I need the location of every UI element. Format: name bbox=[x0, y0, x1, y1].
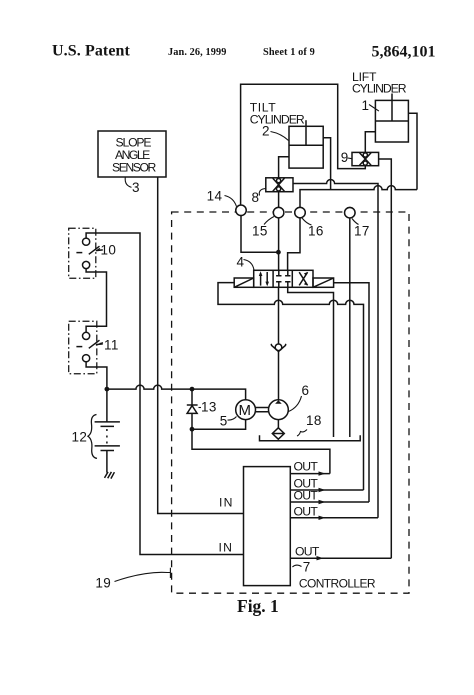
leader for 9 bbox=[348, 157, 352, 160]
valve 8 X symbol bbox=[273, 178, 285, 191]
leader for 6 bbox=[288, 396, 302, 412]
svg-text:6: 6 bbox=[302, 383, 310, 398]
redraw circles over dashed line bbox=[236, 205, 355, 218]
svg-text:OUT: OUT bbox=[294, 504, 319, 518]
wire: right solenoid run to OUT3 riser bbox=[334, 283, 369, 502]
svg-text:CYLINDER: CYLINDER bbox=[352, 81, 407, 95]
switch 11 contacts bbox=[83, 332, 90, 339]
leader for 19 bbox=[115, 568, 171, 582]
valve U4 cell3 crossed arrows bbox=[299, 272, 307, 285]
valve U4 cell2 blocked ports bbox=[276, 270, 290, 276]
tilt cylinder rod bbox=[305, 120, 307, 126]
wire: switch 10 bottom to switch 11 top bbox=[86, 269, 106, 333]
wire: circle 16 down with jog to valve 4 top port bbox=[288, 218, 300, 271]
wire: tilt cylinder left port down to valve 8 bbox=[279, 157, 289, 178]
wire: circle 17 down to tank (crosses solenoid wire, hops plate line) bbox=[349, 218, 351, 437]
leader for 11 bbox=[100, 342, 104, 345]
svg-text:8: 8 bbox=[252, 190, 260, 205]
svg-text:OUT: OUT bbox=[295, 544, 320, 558]
svg-text:14: 14 bbox=[207, 189, 223, 204]
header: patent title block bbox=[52, 43, 436, 61]
leader for 18 bbox=[297, 430, 307, 437]
valve U4 right solenoid bbox=[313, 278, 334, 287]
filter 18 symbol bbox=[272, 428, 284, 439]
svg-text:19: 19 bbox=[95, 576, 111, 591]
leader for 15 bbox=[264, 217, 274, 225]
lift cylinder piston divider bbox=[375, 100, 408, 121]
wire: valve 4 pressure port down to pump bbox=[278, 287, 280, 400]
wire: battery line to motor node with two hops bbox=[107, 385, 192, 389]
valve U4 main body bbox=[254, 270, 313, 287]
diode 13 bbox=[191, 389, 193, 429]
wire: valve 8 bottom port to circle 15 bbox=[278, 192, 280, 208]
leader for 8 bbox=[259, 189, 266, 196]
tank reservoir 18 bbox=[260, 435, 361, 441]
svg-text:U.S. Patent: U.S. Patent bbox=[52, 43, 131, 60]
svg-text:1: 1 bbox=[362, 98, 370, 113]
battery 12 bbox=[106, 389, 108, 422]
tilt cylinder piston divider bbox=[289, 126, 323, 145]
wire: OUT5 bbox=[290, 557, 391, 559]
svg-text:2: 2 bbox=[262, 124, 270, 139]
op circle 15 bbox=[273, 207, 283, 217]
svg-text:10: 10 bbox=[101, 243, 117, 258]
svg-text:15: 15 bbox=[252, 224, 268, 239]
switch 11 enclosure bbox=[69, 321, 97, 374]
wire: big loop from circle 14 up over to valve 9 bottom port bbox=[241, 84, 366, 205]
pump 6 bbox=[269, 400, 289, 420]
svg-text:M: M bbox=[239, 402, 252, 419]
wire: OUT1 bbox=[290, 473, 330, 475]
leader for 16 bbox=[302, 218, 312, 225]
svg-text:7: 7 bbox=[303, 560, 311, 575]
wire: motor node down and right to OUT1 riser bbox=[192, 429, 330, 473]
valve 9 X symbol bbox=[360, 153, 372, 166]
op circle 14 bbox=[236, 205, 246, 215]
switch 11 left tick bbox=[76, 346, 82, 348]
wire: motor bottom return bbox=[192, 420, 246, 430]
svg-text:13: 13 bbox=[201, 400, 217, 415]
leader for 5 bbox=[228, 417, 237, 421]
lift cylinder rod bbox=[391, 94, 393, 101]
svg-text:IN: IN bbox=[219, 541, 232, 555]
leader for 2 bbox=[271, 132, 289, 141]
switch 10 contacts bbox=[83, 238, 90, 245]
svg-text:9: 9 bbox=[341, 150, 349, 165]
slope angle sensor box 3 bbox=[98, 131, 166, 177]
leader for 3 bbox=[125, 177, 131, 187]
switch 10 enclosure bbox=[69, 228, 96, 278]
svg-text:SENSOR: SENSOR bbox=[112, 160, 156, 174]
junction dot above valve 4 bbox=[276, 250, 281, 255]
wire: OUT4 bbox=[290, 517, 378, 519]
switch 10 left tick bbox=[76, 252, 82, 254]
junction dot battery node bbox=[105, 387, 110, 392]
svg-text:IN: IN bbox=[219, 496, 232, 510]
motor-pump shaft bbox=[256, 408, 269, 412]
wire: switch 11 bottom to battery node bbox=[86, 362, 107, 389]
wire: switch 10 top terminal to IN2 riser bbox=[86, 233, 243, 555]
svg-text:5: 5 bbox=[220, 414, 228, 429]
lift cylinder 1 body bbox=[375, 100, 408, 142]
junction dot bottom of diode bbox=[190, 427, 195, 432]
wire: left solenoid run with three hops to OUT2 riser bbox=[218, 283, 364, 490]
svg-text:4: 4 bbox=[237, 255, 245, 270]
wire: valve 9 right port down to OUT5 bbox=[379, 159, 392, 558]
OUT arrowheads bbox=[317, 471, 326, 560]
check valve above pump bbox=[275, 344, 282, 351]
valve 9 body bbox=[352, 152, 379, 165]
wire: line A from valve 8 right port, hops tilt line, down to OUT4 bbox=[293, 180, 378, 518]
junction dot top of diode bbox=[190, 387, 195, 392]
op circle 16 bbox=[295, 207, 305, 217]
controller box 7 bbox=[244, 467, 291, 586]
wire: OUT3 bbox=[290, 501, 369, 503]
dashed enclosure 19 bbox=[172, 212, 409, 593]
leader for 10 bbox=[98, 249, 101, 250]
wire: tilt cylinder right port to line B (hops line A) bbox=[323, 138, 330, 190]
svg-text:Jan. 26, 1999: Jan. 26, 1999 bbox=[168, 47, 227, 58]
svg-text:17: 17 bbox=[354, 224, 370, 239]
wire: motor top feed bbox=[192, 389, 246, 400]
wire: lift cylinder left port down to valve 9 top bbox=[365, 132, 375, 153]
ground bbox=[105, 472, 115, 479]
leader for 1 bbox=[369, 105, 379, 112]
leader for 4 bbox=[244, 260, 255, 271]
svg-text:3: 3 bbox=[132, 180, 140, 195]
wire: OUT2 bbox=[290, 489, 363, 491]
valve U4 left solenoid bbox=[234, 278, 254, 287]
switch 10 lever bbox=[89, 246, 103, 254]
leader for 7 bbox=[292, 565, 301, 567]
valve 8 body bbox=[266, 178, 293, 192]
wire: line B from circle 16 riser to lift cylinder, hops two verticals bbox=[300, 186, 417, 208]
leader for 14 bbox=[225, 196, 237, 207]
svg-text:OUT: OUT bbox=[294, 459, 319, 473]
wire: pump suction to filter bbox=[277, 420, 279, 428]
tilt cylinder 2 body bbox=[289, 126, 323, 168]
wire: sensor output down to IN1 (hops battery line) bbox=[158, 177, 244, 514]
svg-text:5,864,101: 5,864,101 bbox=[372, 44, 436, 61]
leader for 13 bbox=[199, 407, 202, 409]
svg-text:12: 12 bbox=[72, 429, 88, 444]
svg-text:18: 18 bbox=[306, 413, 322, 428]
brace for 12 bbox=[88, 415, 97, 459]
motor M5 bbox=[236, 400, 256, 420]
wire: lift cylinder right port over and down (right leg of line B) bbox=[408, 113, 417, 189]
wire: circle 14 down and right to junction bbox=[241, 216, 278, 253]
svg-text:OUT: OUT bbox=[294, 489, 319, 503]
svg-text:CYLINDER: CYLINDER bbox=[250, 112, 305, 126]
svg-text:11: 11 bbox=[104, 338, 119, 353]
svg-text:16: 16 bbox=[308, 224, 324, 239]
leader for 17 bbox=[352, 219, 359, 225]
svg-text:Sheet 1 of 9: Sheet 1 of 9 bbox=[263, 47, 315, 58]
wire: circle 15 down to valve 4 top port bbox=[278, 218, 280, 271]
svg-text:Fig. 1: Fig. 1 bbox=[237, 596, 279, 616]
op circle 17 bbox=[345, 208, 355, 218]
switch 11 lever bbox=[89, 340, 103, 348]
svg-text:CONTROLLER: CONTROLLER bbox=[299, 577, 376, 591]
wire: valve 4 return port to tank bbox=[288, 287, 334, 437]
valve U4 cell1 arrows bbox=[261, 272, 268, 286]
